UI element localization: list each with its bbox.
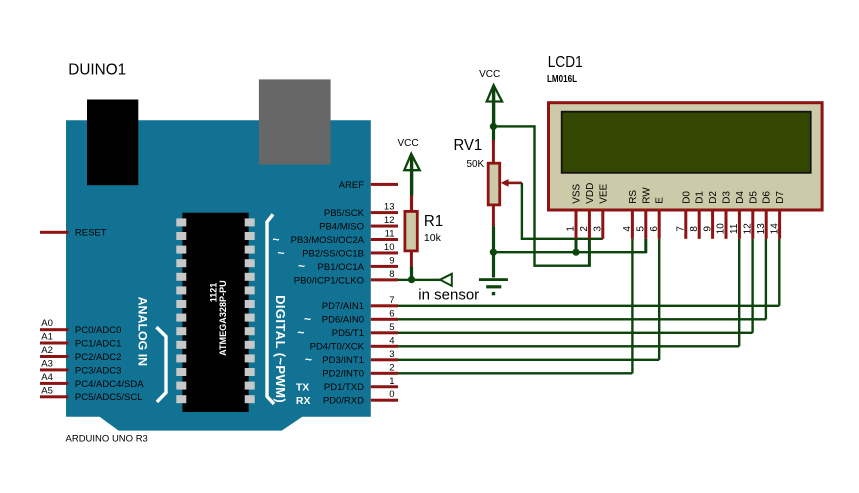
wire PD6 to LCD D6: [398, 239, 767, 321]
svg-text:2: 2: [389, 362, 394, 373]
svg-text:7: 7: [676, 226, 687, 232]
pin 4 number: [389, 335, 394, 346]
wire RW down to ground bus: [644, 239, 647, 253]
svg-text:PB5/SCK: PB5/SCK: [324, 208, 365, 219]
svg-text:PD3/INT1: PD3/INT1: [322, 355, 364, 366]
digital group brace: [267, 214, 274, 404]
pin PC5/ADC5/SCL label: [75, 392, 143, 403]
svg-text:PC1/ADC1: PC1/ADC1: [75, 338, 121, 349]
resistor R1 bottom pin wire: [410, 252, 413, 272]
tilde PD6: [304, 312, 311, 326]
svg-text:50K: 50K: [467, 159, 485, 170]
tilde PD3: [305, 353, 312, 367]
svg-text:R1: R1: [424, 213, 443, 230]
label DUINO1: [68, 62, 126, 79]
svg-text:8: 8: [389, 269, 394, 280]
LCD pin 6 stub: [658, 212, 661, 239]
svg-text:1: 1: [566, 226, 577, 232]
LCD pin 12 number: [743, 223, 754, 235]
svg-text:10k: 10k: [424, 233, 442, 244]
LCD pin 5 number: [636, 226, 647, 232]
svg-text:ANALOG IN: ANALOG IN: [135, 297, 149, 367]
svg-text:PC4/ADC4/SDA: PC4/ADC4/SDA: [75, 379, 144, 390]
LCD pin 7 label D0: [681, 191, 692, 204]
wire R1 to node: [410, 267, 413, 280]
LCD pin 3 number: [593, 226, 604, 232]
svg-text:ARDUINO UNO R3: ARDUINO UNO R3: [66, 434, 148, 445]
LCD pin 14 label D7: [775, 191, 786, 204]
pin 0 PD0/RXD stub: [371, 399, 398, 402]
svg-text:13: 13: [756, 223, 767, 235]
svg-text:LM016L: LM016L: [547, 74, 577, 85]
svg-text:PD5/T1: PD5/T1: [332, 328, 364, 339]
junction node RV1 ground bus: [490, 249, 497, 256]
pin PC0/ADC0 label: [75, 325, 121, 336]
svg-text:14: 14: [769, 223, 780, 235]
pin 4 PD4/T0/XCK stub: [371, 345, 398, 348]
pin PD0/RXD label: [323, 396, 364, 407]
svg-text:in sensor: in sensor: [418, 287, 479, 304]
svg-text:2: 2: [579, 226, 590, 232]
svg-text:3: 3: [593, 226, 604, 232]
pin 2 PD2/INT0 stub: [371, 372, 398, 375]
wire VSS down: [575, 239, 578, 252]
text ANALOG IN: [135, 297, 149, 367]
pin 1 PD1/TXD stub: [371, 385, 398, 388]
text DIGITAL (~PWM): [273, 295, 288, 403]
power connector: [259, 79, 331, 164]
LCD pin 3 label VEE: [598, 183, 609, 203]
LCD pin 6 label E: [655, 197, 666, 204]
potentiometer RV1 body: [488, 163, 500, 205]
pin PD4/T0/XCK label: [310, 342, 365, 353]
potentiometer RV1 value 50K: [467, 159, 485, 170]
svg-text:PC0/ADC0: PC0/ADC0: [75, 325, 121, 336]
LCD pin 5 label RW: [641, 187, 652, 204]
LCD pin 1 number: [566, 226, 577, 232]
potentiometer RV1 VCC power arrow: [487, 85, 502, 126]
pin A2 stub: [40, 355, 69, 358]
pin 13 number: [384, 202, 395, 213]
pin 12 PB4/MISO stub: [371, 225, 398, 228]
atmega chip U1 legs left: [176, 218, 186, 403]
pin 5 PD5/T1 stub: [371, 331, 398, 334]
svg-text:PD2/INT0: PD2/INT0: [322, 369, 364, 380]
svg-text:VEE: VEE: [598, 183, 609, 203]
svg-text:8: 8: [689, 226, 700, 232]
LCD pin 11 stub: [738, 212, 741, 239]
svg-text:~: ~: [298, 259, 305, 273]
pin 11 PB3/MOSI/OC2A stub: [371, 238, 398, 241]
pin PB3/MOSI/OC2A label: [291, 235, 365, 246]
pin PB0/ICP1/CLKO label: [294, 275, 364, 286]
svg-text:12: 12: [384, 215, 395, 226]
wire VDD riser vertical: [533, 125, 535, 266]
pin A3 label: [41, 358, 53, 369]
svg-text:~: ~: [304, 312, 311, 326]
LCD pin 8 stub: [698, 212, 701, 239]
wire pin8 to in sensor terminal: [398, 279, 441, 281]
ground bus wire: [493, 251, 645, 253]
pin PB1/OC1A label: [318, 262, 365, 273]
svg-text:4: 4: [622, 226, 633, 232]
svg-text:PD7/AIN1: PD7/AIN1: [322, 301, 364, 312]
svg-text:5: 5: [636, 226, 647, 232]
in sensor terminal triangle: [440, 274, 452, 286]
svg-text:PD4/T0/XCK: PD4/T0/XCK: [310, 342, 365, 353]
svg-text:10: 10: [716, 223, 727, 235]
LCD pin 13 label D6: [762, 191, 773, 204]
pin AREF label: [339, 180, 365, 191]
label TX: [296, 382, 309, 394]
label RX: [296, 395, 311, 407]
pin 8 PB0/ICP1/CLKO stub: [371, 278, 398, 281]
svg-text:RX: RX: [296, 395, 311, 407]
LCD pin 9 stub: [711, 212, 714, 239]
svg-text:A3: A3: [41, 358, 53, 369]
pin 5 number: [389, 322, 394, 333]
svg-text:E: E: [655, 197, 666, 204]
LCD pin 13 number: [756, 223, 767, 235]
svg-text:A0: A0: [41, 318, 53, 329]
atmega chip U1 body: [182, 213, 248, 412]
junction node VSS ground: [572, 249, 579, 256]
wire VCC node down: [492, 126, 495, 140]
svg-text:A2: A2: [41, 345, 53, 356]
analog group brace: [156, 327, 166, 402]
resistor R1 label: [424, 213, 443, 230]
svg-text:RW: RW: [641, 187, 652, 204]
resistor R1 body: [405, 211, 417, 251]
LCD1 type LM016L: [547, 74, 577, 85]
LCD pin 12 stub: [751, 212, 754, 239]
wire PD7 to LCD D7: [398, 239, 781, 307]
pin AREF stub: [371, 183, 398, 186]
tilde PD5: [297, 326, 304, 340]
pin 6 PD6/AIN0 stub: [371, 318, 398, 321]
svg-text:PC2/ADC2: PC2/ADC2: [75, 352, 121, 363]
LCD pin 11 label D4: [735, 191, 746, 204]
pin A5 label: [41, 385, 53, 396]
pin PB2/SS/OC1B label: [302, 248, 364, 259]
svg-text:11: 11: [385, 229, 395, 240]
svg-text:RV1: RV1: [454, 137, 483, 154]
pin PC1/ADC1 label: [75, 338, 121, 349]
potentiometer RV1 label: [454, 137, 483, 154]
LCD pin 9 label D2: [708, 191, 719, 204]
svg-text:12: 12: [743, 223, 754, 235]
svg-text:PB2/SS/OC1B: PB2/SS/OC1B: [302, 248, 364, 259]
LCD pin 8 number: [689, 226, 700, 232]
svg-text:TX: TX: [296, 382, 309, 394]
LCD1 body: [549, 103, 823, 210]
LCD pin 2 stub: [588, 212, 591, 239]
pin A4 label: [41, 372, 53, 383]
svg-text:DIGITAL (~PWM): DIGITAL (~PWM): [273, 295, 288, 403]
junction node RV1 VCC: [490, 123, 497, 130]
atmega chip text ATMEGA328P-PU: [218, 280, 228, 356]
pin A2 label: [41, 345, 53, 356]
svg-text:A5: A5: [41, 385, 53, 396]
resistor R1 top pin wire: [410, 196, 413, 212]
svg-text:PB0/ICP1/CLKO: PB0/ICP1/CLKO: [294, 275, 364, 286]
LCD pin 4 number: [622, 226, 633, 232]
pin 10 PB2/SS/OC1B stub: [371, 251, 398, 254]
svg-text:PB4/MISO: PB4/MISO: [319, 221, 364, 232]
wire PD4 to LCD D4: [398, 239, 740, 348]
wire VDD horizontal to pin2: [534, 265, 591, 267]
wire VDD down: [588, 239, 591, 267]
pin 6 number: [389, 308, 394, 319]
LCD pin 7 number: [676, 226, 687, 232]
pin PD1/TXD label: [324, 382, 364, 393]
svg-text:9: 9: [702, 226, 713, 232]
atmega chip text 1121: [209, 283, 219, 303]
wire wiper to VEE: [521, 183, 603, 240]
wire PD2 to LCD RS: [398, 239, 634, 375]
LCD pin 7 stub: [684, 212, 687, 239]
pin 13 PB5/SCK stub: [371, 211, 398, 214]
svg-text:1: 1: [389, 376, 394, 387]
svg-text:RS: RS: [628, 190, 639, 204]
LCD pin 9 number: [702, 226, 713, 232]
pin 11 number: [385, 229, 395, 240]
svg-text:D6: D6: [762, 191, 773, 204]
pin PD2/INT0 label: [322, 369, 364, 380]
svg-text:7: 7: [389, 295, 394, 306]
svg-text:~: ~: [277, 246, 284, 260]
svg-text:A4: A4: [41, 372, 53, 383]
pin RESET stub: [40, 231, 69, 234]
svg-text:PC5/ADC5/SCL: PC5/ADC5/SCL: [75, 392, 143, 403]
pin A1 stub: [40, 342, 69, 345]
LCD pin 10 label D3: [722, 191, 733, 204]
LCD pin 6 number: [649, 226, 660, 232]
pin A1 label: [41, 332, 53, 343]
pin A3 stub: [40, 368, 69, 371]
LCD1 screen: [562, 112, 811, 173]
pin 8 number: [389, 269, 394, 280]
usb connector: [87, 100, 138, 186]
LCD pin 2 label VDD: [585, 183, 596, 204]
svg-text:D1: D1: [695, 191, 706, 204]
svg-text:D2: D2: [708, 191, 719, 204]
svg-text:PD1/TXD: PD1/TXD: [324, 382, 364, 393]
pin PC4/ADC4/SDA label: [75, 379, 144, 390]
pin 0 number: [389, 389, 394, 400]
pin A5 stub: [40, 395, 69, 398]
LCD pin 12 label D5: [748, 191, 759, 204]
tilde PB1: [298, 259, 305, 273]
svg-text:DUINO1: DUINO1: [68, 62, 126, 79]
LCD pin 14 stub: [778, 212, 781, 239]
LCD pin 3 stub: [601, 212, 604, 239]
pin PB5/SCK label: [324, 208, 365, 219]
LCD pin 10 stub: [725, 212, 728, 239]
pin 3 PD3/INT1 stub: [371, 358, 398, 361]
pin A0 stub: [40, 328, 69, 331]
pin PD3/INT1 label: [322, 355, 364, 366]
svg-text:1121: 1121: [209, 283, 219, 303]
wire RV1 bottom to ground: [492, 226, 495, 277]
pin PC2/ADC2 label: [75, 352, 121, 363]
wire PD3 to LCD E: [398, 239, 660, 361]
svg-text:VDD: VDD: [585, 183, 596, 204]
pin 9 number: [389, 255, 394, 266]
pin A0 label: [41, 318, 53, 329]
tilde PB2: [277, 246, 284, 260]
label in sensor: [418, 287, 479, 304]
arduino board DUINO1 body: [66, 120, 371, 430]
pin RESET label: [75, 228, 107, 239]
svg-text:D5: D5: [748, 191, 759, 204]
svg-text:LCD1: LCD1: [548, 54, 583, 71]
svg-text:13: 13: [384, 202, 395, 213]
svg-text:D0: D0: [681, 191, 692, 204]
LCD pin 11 number: [729, 223, 740, 234]
potentiometer RV1 wiper arrow: [501, 179, 522, 187]
svg-text:VCC: VCC: [479, 69, 500, 80]
pin 3 number: [389, 349, 394, 360]
LCD pin 1 stub: [575, 212, 578, 239]
svg-text:6: 6: [389, 308, 394, 319]
ground symbol: [479, 278, 508, 295]
LCD pin 1 label VSS: [572, 183, 583, 203]
LCD pin 10 number: [716, 223, 727, 235]
resistor R1 value 10k: [424, 233, 442, 244]
LCD pin 4 stub: [631, 212, 634, 239]
LCD pin 14 number: [769, 223, 780, 235]
pin A4 stub: [40, 382, 69, 385]
potentiometer RV1 bottom pin wire: [492, 206, 495, 226]
pin PB4/MISO label: [319, 221, 364, 232]
svg-text:PD0/RXD: PD0/RXD: [323, 396, 364, 407]
label ARDUINO UNO R3: [66, 434, 148, 445]
resistor R1 VCC label: [397, 138, 418, 149]
svg-text:~: ~: [305, 353, 312, 367]
LCD1 label: [548, 54, 583, 71]
pin 12 number: [384, 215, 395, 226]
LCD pin 13 stub: [765, 212, 768, 239]
resistor R1 VCC power arrow: [404, 154, 419, 196]
potentiometer RV1 VCC label: [479, 69, 500, 80]
LCD pin 5 stub: [644, 212, 647, 239]
LCD pin 2 number: [579, 226, 590, 232]
svg-text:VCC: VCC: [397, 138, 418, 149]
svg-text:PD6/AIN0: PD6/AIN0: [322, 315, 364, 326]
pin 2 number: [389, 362, 394, 373]
LCD pin 8 label D1: [695, 191, 706, 204]
svg-text:4: 4: [389, 335, 394, 346]
pin PD5/T1 label: [332, 328, 364, 339]
pin 1 number: [389, 376, 394, 387]
svg-text:RESET: RESET: [75, 228, 107, 239]
svg-text:PB3/MOSI/OC2A: PB3/MOSI/OC2A: [291, 235, 365, 246]
junction node R1 pin8: [408, 276, 415, 283]
svg-text:A1: A1: [41, 332, 53, 343]
svg-text:~: ~: [297, 326, 304, 340]
svg-text:5: 5: [389, 322, 394, 333]
pin 9 PB1/OC1A stub: [371, 265, 398, 268]
svg-text:3: 3: [389, 349, 394, 360]
svg-text:~: ~: [272, 232, 279, 246]
pin PD6/AIN0 label: [322, 315, 364, 326]
svg-text:PC3/ADC3: PC3/ADC3: [75, 365, 121, 376]
svg-text:VSS: VSS: [572, 183, 583, 203]
pin PC3/ADC3 label: [75, 365, 121, 376]
svg-text:6: 6: [649, 226, 660, 232]
pin 10 number: [384, 242, 395, 253]
wire PD5 to LCD D5: [398, 239, 754, 334]
svg-text:10: 10: [384, 242, 395, 253]
pin 7 number: [389, 295, 394, 306]
svg-text:AREF: AREF: [339, 180, 365, 191]
tilde PB3: [272, 232, 279, 246]
svg-text:ATMEGA328P-PU: ATMEGA328P-PU: [218, 280, 228, 356]
svg-text:PB1/OC1A: PB1/OC1A: [318, 262, 365, 273]
potentiometer RV1 top pin wire: [492, 140, 495, 162]
atmega chip U1 legs right: [245, 218, 255, 403]
pin 7 PD7/AIN1 stub: [371, 304, 398, 307]
svg-text:9: 9: [389, 255, 394, 266]
svg-text:0: 0: [389, 389, 394, 400]
svg-text:D7: D7: [775, 191, 786, 204]
svg-text:11: 11: [729, 223, 740, 234]
svg-text:D3: D3: [722, 191, 733, 204]
LCD pin 4 label RS: [628, 190, 639, 204]
pin PD7/AIN1 label: [322, 301, 364, 312]
wire VCC node to VDD riser: [493, 125, 535, 127]
svg-text:D4: D4: [735, 191, 746, 204]
